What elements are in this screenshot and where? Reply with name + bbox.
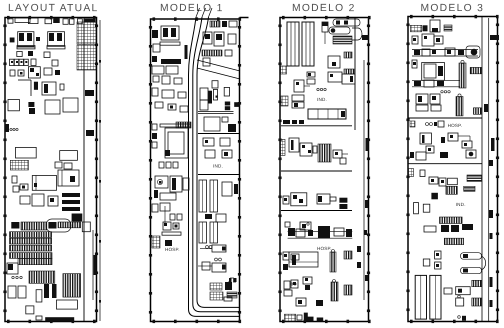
svg-text:LAYOUT ATUAL: LAYOUT ATUAL xyxy=(8,3,99,14)
svg-text:MODELO 3: MODELO 3 xyxy=(420,3,484,14)
svg-text:HOSP.: HOSP. xyxy=(317,246,332,251)
svg-text:x: x xyxy=(466,255,468,259)
svg-text:MODELO 1: MODELO 1 xyxy=(160,3,224,14)
svg-text:MODELO 2: MODELO 2 xyxy=(292,3,356,14)
svg-text:IND.: IND. xyxy=(317,97,327,102)
svg-text:IND.: IND. xyxy=(456,202,466,207)
svg-text:HOSP.: HOSP. xyxy=(165,247,180,252)
svg-text:HOSP.: HOSP. xyxy=(448,123,463,128)
svg-text:IND.: IND. xyxy=(213,164,223,169)
